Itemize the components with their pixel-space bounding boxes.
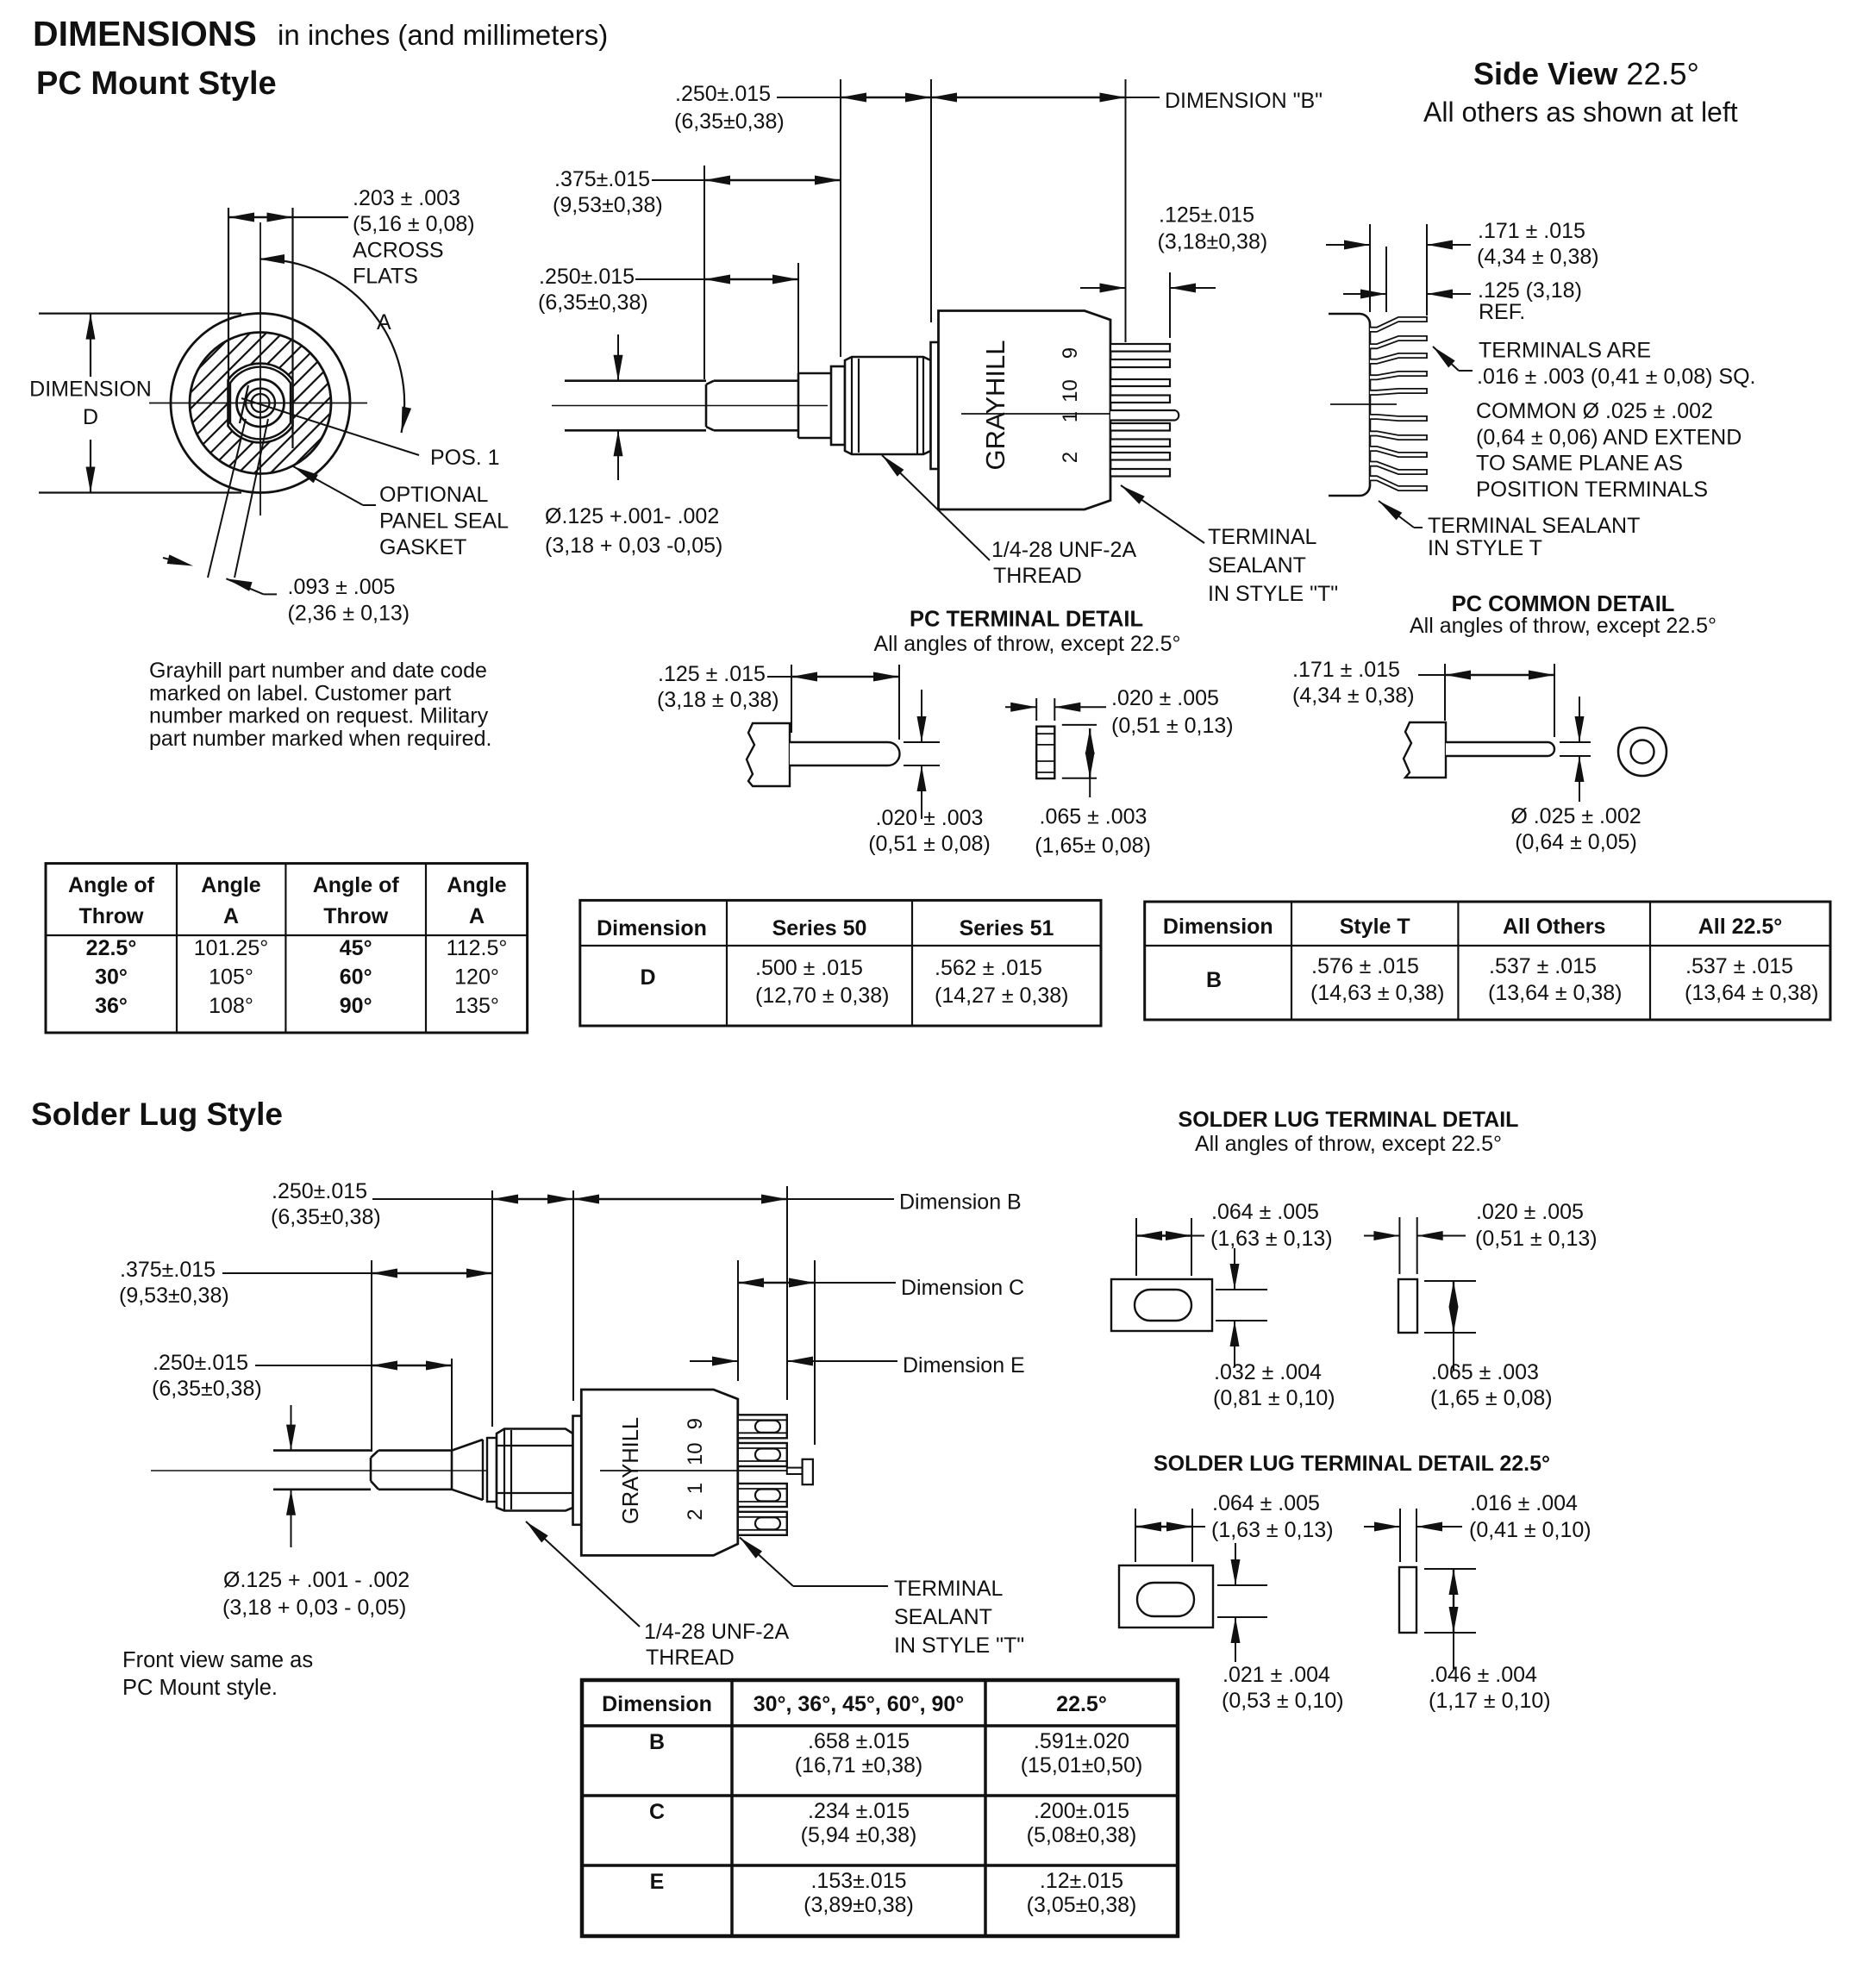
panel seal gasket leader [293,466,363,505]
front view outer gasket circle [171,314,350,493]
svg-text:.064 ± .005: .064 ± .005 [1211,1200,1319,1224]
dim .125 terminal arrows [1080,287,1126,289]
22.5 sealant leader [1379,501,1414,528]
svg-text:9: 9 [1059,347,1082,359]
svg-text:.093 ± .005: .093 ± .005 [288,575,396,599]
svg-text:.021 ± .004: .021 ± .004 [1223,1663,1330,1687]
svg-text:.125±.015: .125±.015 [1159,203,1254,228]
svg-text:1: 1 [684,1483,707,1494]
pcd pin ticks [1560,741,1591,743]
svg-text:Front view same as: Front view same as [122,1648,313,1672]
svg-text:(15,01±0,50): (15,01±0,50) [1021,1753,1143,1777]
svg-text:Dimension E: Dimension E [903,1353,1025,1378]
sl dimension C dim line [738,1282,815,1284]
side view thread relief [798,372,831,375]
ptd end view rect [1036,727,1054,778]
slt lug oval [1135,1290,1191,1321]
sl main body [581,1390,738,1555]
dimension D dim line lower [90,440,91,493]
pcd pin arrows [1579,697,1580,742]
22.5 dim .171 arrows [1326,244,1370,246]
svg-text:B: B [1206,968,1222,992]
sl shaft lines [273,1449,371,1452]
dim .375 extension left [703,166,705,379]
ptd ext right [898,665,900,740]
svg-text:TERMINAL: TERMINAL [1208,525,1317,549]
side view shaft flat section [714,379,798,382]
sl thread section [378,1449,452,1452]
svg-text:.250±.015: .250±.015 [272,1179,367,1203]
svg-text:.375±.015: .375±.015 [554,167,650,191]
svg-text:(9,53±0,38): (9,53±0,38) [119,1284,229,1308]
sl common pin [787,1468,803,1474]
svg-text:.12±.015: .12±.015 [1040,1869,1123,1893]
sl taper [452,1440,483,1451]
slt oval height arrows [1234,1248,1235,1290]
svg-text:GRAYHILL: GRAYHILL [980,340,1010,470]
svg-text:ACROSS: ACROSS [353,238,444,262]
side view position terminals [1110,344,1170,352]
svg-text:45°: 45° [340,936,372,960]
svg-text:IN STYLE "T": IN STYLE "T" [1208,582,1338,606]
svg-text:Dimension: Dimension [1163,915,1273,939]
thread leader [882,455,990,560]
style table grid [1145,902,1830,1020]
svg-text:(6,35±0,38): (6,35±0,38) [674,109,785,134]
svg-text:Throw: Throw [323,904,389,928]
svg-text:Throw: Throw [79,904,145,928]
svg-text:.153±.015: .153±.015 [810,1869,906,1893]
svg-text:(0,41 ± 0,10): (0,41 ± 0,10) [1469,1518,1591,1542]
svg-text:108°: 108° [209,994,253,1018]
svg-text:.020 ± .005: .020 ± .005 [1111,686,1219,710]
svg-text:(3,18 ± 0,38): (3,18 ± 0,38) [657,688,779,712]
svg-text:.500 ± .015: .500 ± .015 [755,956,863,980]
sl ext lug root [737,1260,739,1381]
svg-text:(13,64 ± 0,38): (13,64 ± 0,38) [1685,981,1818,1005]
svg-text:PC Mount style.: PC Mount style. [122,1676,278,1700]
side view shaft lines [565,379,706,382]
side view common terminal [1110,410,1179,421]
svg-text:Dimension: Dimension [597,916,707,940]
slt dim .064 exts [1135,1218,1137,1276]
svg-text:marked on label. Customer part: marked on label. Customer part [149,681,451,705]
svg-text:Series 50: Series 50 [772,916,867,940]
svg-text:.537 ± .015: .537 ± .015 [1685,954,1793,978]
svg-text:.065 ± .003: .065 ± .003 [1431,1360,1539,1384]
svg-text:All angles of throw, except 22: All angles of throw, except 22.5° [1195,1132,1502,1156]
svg-text:A: A [377,310,391,334]
svg-text:(2,36 ± 0,13): (2,36 ± 0,13) [288,602,410,626]
dim .375 [652,179,704,181]
svg-text:(4,34 ± 0,38): (4,34 ± 0,38) [1477,245,1599,269]
svg-text:105°: 105° [209,965,253,990]
svg-text:(3,18±0,38): (3,18±0,38) [1158,230,1268,254]
svg-text:All others as shown at left: All others as shown at left [1423,97,1738,128]
svg-text:90°: 90° [340,994,372,1018]
svg-text:(14,63 ± 0,38): (14,63 ± 0,38) [1310,981,1444,1005]
dimension D dim line upper [90,314,91,377]
sl ext body front [572,1190,574,1401]
sl solder lug terminals [738,1415,787,1438]
svg-text:TERMINAL SEALANT: TERMINAL SEALANT [1428,514,1640,538]
svg-text:(0,53 ± 0,10): (0,53 ± 0,10) [1222,1689,1344,1713]
svg-text:C: C [649,1800,665,1824]
svg-text:135°: 135° [454,994,499,1018]
svg-text:.046 ± .004: .046 ± .004 [1429,1663,1537,1687]
22.5 ext line tip [1426,224,1428,316]
svg-text:OPTIONAL: OPTIONAL [379,483,489,507]
22.5 ext line mid [1385,247,1387,312]
svg-text:.591±.020: .591±.020 [1034,1729,1129,1753]
slt225 oval ticks [1217,1584,1267,1586]
svg-text:(1,63 ± 0,13): (1,63 ± 0,13) [1210,1227,1333,1251]
extension line terminal-bend [1125,79,1127,342]
front view inner circle 3 [252,394,270,412]
svg-text:Solder Lug Style: Solder Lug Style [31,1096,283,1132]
svg-text:TO SAME PLANE AS: TO SAME PLANE AS [1476,452,1683,476]
22.5 ext line body edge [1369,224,1371,312]
slt225 lug [1119,1565,1213,1628]
svg-text:(3,05±0,38): (3,05±0,38) [1027,1893,1137,1917]
svg-text:TERMINAL: TERMINAL [894,1577,1004,1601]
front view bushing flat profile inner [230,367,291,440]
svg-text:(0,81 ± 0,10): (0,81 ± 0,10) [1213,1386,1335,1410]
sl body centerline [600,1470,802,1471]
sl dim .250 thread [255,1365,372,1366]
dimension B dim line [931,97,1126,98]
svg-text:All angles of throw, except 22: All angles of throw, except 22.5° [1410,614,1717,638]
svg-text:(5,08±0,38): (5,08±0,38) [1027,1823,1137,1847]
sl shaft axis [151,1470,603,1471]
dim .250 top [841,97,931,98]
terminal sealant T leader [1121,485,1204,543]
svg-text:Grayhill part number and date: Grayhill part number and date code [149,659,487,683]
pos 1 leader line [241,398,419,455]
svg-text:Dimension B: Dimension B [899,1190,1022,1215]
22.5 bent terminals [1370,317,1427,332]
svg-text:.020 ± .003: .020 ± .003 [876,806,984,830]
ptd ext left [791,665,792,733]
slt225 edge height arrows [1453,1569,1454,1633]
svg-text:(5,16 ± 0,08): (5,16 ± 0,08) [353,212,475,236]
slt225 lug oval [1137,1583,1194,1616]
svg-text:POSITION TERMINALS: POSITION TERMINALS [1476,478,1708,502]
svg-text:(6,35±0,38): (6,35±0,38) [538,291,648,315]
svg-text:in inches (and millimeters): in inches (and millimeters) [278,19,608,51]
pcd ext right [1554,664,1555,737]
sl shaft dia arrows [291,1405,292,1451]
svg-text:.200±.015: .200±.015 [1034,1799,1129,1823]
svg-text:(9,53±0,38): (9,53±0,38) [553,193,663,217]
22.5 terminals-are leader [1433,347,1459,371]
svg-text:.064 ± .005: .064 ± .005 [1212,1491,1320,1515]
svg-text:Style T: Style T [1340,915,1410,939]
shaft dia arrows [617,334,619,381]
22.5 body centerline [1330,403,1397,405]
pcd pin [1446,742,1554,756]
across flats dimension line [228,216,293,218]
svg-text:.016 ± .003 (0,41 ± 0,08) SQ.: .016 ± .003 (0,41 ± 0,08) SQ. [1477,365,1755,389]
sl ext lug tip [786,1186,788,1400]
svg-text:.537 ± .015: .537 ± .015 [1489,954,1597,978]
svg-text:(1,17 ± 0,10): (1,17 ± 0,10) [1429,1689,1551,1713]
svg-text:.065 ± .003: .065 ± .003 [1040,805,1147,829]
svg-text:(13,64 ± 0,38): (13,64 ± 0,38) [1488,981,1622,1005]
svg-text:PC Mount Style: PC Mount Style [36,66,277,102]
slt lug [1111,1279,1212,1331]
ptd end width arrows [1005,706,1036,708]
svg-text:1/4-28 UNF-2A: 1/4-28 UNF-2A [991,538,1136,562]
across flats right extension line [291,208,293,448]
svg-text:B: B [649,1730,665,1754]
sl ext bushing front [491,1190,493,1427]
sl shaft tip face [370,1458,372,1481]
svg-text:112.5°: 112.5° [447,936,508,960]
svg-text:All Others: All Others [1503,915,1605,939]
angle table grid [46,864,528,1033]
svg-text:.171 ± .015: .171 ± .015 [1478,219,1585,243]
svg-text:SOLDER LUG TERMINAL DETAIL 22.: SOLDER LUG TERMINAL DETAIL 22.5° [1154,1452,1550,1476]
angle A arc [260,259,404,433]
ptd dim line [767,676,791,678]
svg-text:.171 ± .015: .171 ± .015 [1292,658,1400,682]
pcd ext left [1444,664,1446,721]
svg-text:(0,51 ± 0,13): (0,51 ± 0,13) [1111,714,1234,738]
slt edge rect [1398,1279,1417,1333]
series table grid [580,900,1101,1026]
sl washers [482,1440,484,1500]
side view shaft tip face [705,384,708,427]
front view horizontal centerline [149,403,367,404]
svg-text:SOLDER LUG TERMINAL DETAIL: SOLDER LUG TERMINAL DETAIL [1179,1108,1519,1132]
svg-text:DIMENSION: DIMENSION [29,378,152,402]
svg-text:(1,63 ± 0,13): (1,63 ± 0,13) [1211,1518,1334,1542]
sl dimension E dim line [690,1360,738,1362]
slot dim arrow right [226,578,252,591]
svg-text:THREAD: THREAD [993,564,1082,588]
ptd pin thickness arrows [921,690,922,742]
slt edge width arrows [1364,1235,1399,1237]
ptd pin thickness ticks [904,741,940,743]
svg-text:All 22.5°: All 22.5° [1698,915,1783,939]
svg-text:60°: 60° [340,965,372,990]
svg-text:(3,89±0,38): (3,89±0,38) [804,1893,914,1917]
front view inner circle 2 [246,389,275,418]
svg-text:Angle: Angle [201,873,261,897]
dimension D bottom extension line [39,491,241,493]
svg-text:(1,65 ± 0,08): (1,65 ± 0,08) [1430,1386,1553,1410]
slt225 edge height ticks [1424,1568,1476,1570]
svg-text:GASKET: GASKET [379,535,466,559]
dim .250 thread [635,278,704,280]
svg-text:.576 ± .015: .576 ± .015 [1311,954,1419,978]
svg-text:.658 ±.015: .658 ±.015 [808,1729,910,1753]
extension line terminal-tip [1169,272,1171,338]
svg-text:(6,35±0,38): (6,35±0,38) [152,1377,262,1401]
svg-text:.250±.015: .250±.015 [539,265,635,289]
front view vertical centerline [260,222,261,515]
bottom table grid [582,1680,1178,1936]
svg-text:2: 2 [684,1509,707,1520]
slot line 1 [208,419,246,578]
svg-text:Side View 22.5°: Side View 22.5° [1473,56,1699,91]
svg-text:(4,34 ± 0,38): (4,34 ± 0,38) [1292,684,1415,708]
svg-text:IN STYLE "T": IN STYLE "T" [894,1634,1024,1658]
slt oval height ticks [1216,1289,1267,1290]
svg-text:10: 10 [1059,379,1082,403]
svg-text:.032 ± .004: .032 ± .004 [1214,1360,1322,1384]
front view bushing flat profile outer [228,364,293,443]
svg-text:Dimension: Dimension [602,1692,712,1716]
svg-text:36°: 36° [95,994,128,1018]
ptd pin [790,742,900,765]
svg-text:SEALANT: SEALANT [1208,553,1306,578]
svg-text:TERMINALS ARE: TERMINALS ARE [1479,339,1651,363]
svg-text:DIMENSIONS: DIMENSIONS [33,14,257,53]
svg-text:DIMENSION "B": DIMENSION "B" [1165,89,1323,113]
side view body centerline [961,413,1172,415]
svg-text:.250±.015: .250±.015 [153,1351,248,1375]
side view main body [939,311,1111,510]
pcd end view donut [1618,728,1667,776]
ptd height ticks [1062,724,1097,726]
svg-text:(5,94 ±0,38): (5,94 ±0,38) [801,1823,917,1847]
22.5 dim .125 arrows [1343,293,1386,295]
svg-text:D: D [83,405,98,429]
slt edge exts [1398,1217,1400,1274]
svg-text:(16,71 ±0,38): (16,71 ±0,38) [795,1753,923,1777]
svg-text:Series 51: Series 51 [960,916,1054,940]
sl ext shaft tip [371,1260,372,1452]
front view shaft circle [237,379,285,427]
svg-text:(0,51 ± 0,13): (0,51 ± 0,13) [1475,1227,1598,1251]
sl dimension B dim line [573,1198,787,1200]
svg-text:(3,18 + 0,03 - 0,05): (3,18 + 0,03 - 0,05) [222,1596,406,1620]
svg-text:(6,35±0,38): (6,35±0,38) [271,1205,381,1229]
svg-text:(1,65± 0,08): (1,65± 0,08) [1035,834,1151,858]
22.5 body outline [1329,314,1370,496]
pcd dim line [1418,674,1445,676]
svg-text:(0,64 ± 0,06) AND EXTEND: (0,64 ± 0,06) AND EXTEND [1476,425,1742,449]
svg-text:IN STYLE T: IN STYLE T [1428,536,1542,560]
sl dim .250 top [372,1198,492,1200]
extension line body-face [930,79,932,322]
svg-text:Angle of: Angle of [68,873,155,897]
svg-text:(14,27 ± 0,38): (14,27 ± 0,38) [935,984,1068,1008]
slt225 dim .064 line [1135,1526,1192,1528]
ptd end ext lines [1035,698,1037,721]
svg-text:.562 ± .015: .562 ± .015 [935,956,1042,980]
svg-text:A: A [469,904,485,928]
svg-text:Angle of: Angle of [313,873,400,897]
svg-text:.234 ±.015: .234 ±.015 [808,1799,910,1823]
svg-text:101.25°: 101.25° [194,936,268,960]
ptd height arrows [1089,728,1091,778]
pcd molded block [1404,722,1446,778]
svg-text:1/4-28 UNF-2A: 1/4-28 UNF-2A [644,1620,789,1644]
slot line 2 [234,419,268,578]
slt dim .064 line [1136,1234,1191,1236]
sl body plate [573,1416,582,1525]
side view body front plate [931,342,939,469]
svg-text:Ø.125 + .001 - .002: Ø.125 + .001 - .002 [223,1568,410,1592]
svg-text:22.5°: 22.5° [1056,1692,1107,1716]
side view washer [831,366,845,445]
svg-text:FLATS: FLATS [353,265,418,289]
svg-text:30°: 30° [95,965,128,990]
slt225 edge width arrows [1364,1526,1400,1528]
svg-text:PANEL SEAL: PANEL SEAL [379,509,509,534]
svg-text:Ø.125 +.001- .002: Ø.125 +.001- .002 [545,504,719,528]
svg-text:A: A [223,904,239,928]
svg-text:REF.: REF. [1479,300,1525,324]
slt edge height arrows [1453,1281,1454,1333]
sl ext common cap [814,1260,816,1445]
dim .250 top leader [777,97,841,98]
sl sealant leader [740,1538,793,1587]
svg-text:120°: 120° [454,965,499,990]
front view hatched ring outer circle [190,333,331,474]
svg-text:Dimension C: Dimension C [901,1276,1024,1300]
svg-text:THREAD: THREAD [646,1646,735,1670]
svg-text:All angles of throw, except 22: All angles of throw, except 22.5° [873,632,1180,656]
side view bushing [845,357,931,454]
svg-text:.375±.015: .375±.015 [120,1258,216,1282]
svg-text:part number marked when requir: part number marked when required. [149,727,491,751]
sl thread leader [526,1521,640,1627]
slt225 edge rect [1399,1567,1416,1633]
dimension D top extension line [39,313,241,315]
sl bushing [497,1429,573,1511]
svg-text:22.5°: 22.5° [86,936,137,960]
front view shaft flat chord [240,385,248,423]
svg-text:.016 ± .004: .016 ± .004 [1470,1491,1578,1515]
sl dim .375 [222,1272,372,1274]
svg-text:PC COMMON DETAIL: PC COMMON DETAIL [1452,592,1675,616]
extension line body-front [840,79,841,357]
svg-text:POS. 1: POS. 1 [430,446,500,470]
svg-text:SEALANT: SEALANT [894,1605,992,1629]
slt225 edge exts [1399,1509,1401,1562]
svg-text:(0,51 ± 0,08): (0,51 ± 0,08) [868,832,991,856]
svg-text:10: 10 [684,1442,707,1465]
svg-text:(12,70 ± 0,38): (12,70 ± 0,38) [755,984,889,1008]
slt225 dim .064 exts [1135,1509,1136,1562]
svg-text:.125 ± .015: .125 ± .015 [658,662,766,686]
svg-text:1: 1 [1059,411,1082,422]
svg-text:.250±.015: .250±.015 [675,82,771,106]
svg-text:COMMON Ø .025 ± .002: COMMON Ø .025 ± .002 [1476,399,1713,423]
svg-text:.203 ± .003: .203 ± .003 [353,186,460,210]
side view shaft axis line [552,405,828,407]
slt225 oval arrows [1235,1543,1236,1585]
ptd molded block [747,723,790,786]
svg-text:Ø .025 ± .002: Ø .025 ± .002 [1510,804,1641,828]
across flats left extension line [228,208,229,424]
svg-text:9: 9 [684,1418,707,1429]
svg-text:2: 2 [1059,452,1082,463]
svg-text:E: E [650,1870,665,1894]
svg-text:PC TERMINAL DETAIL: PC TERMINAL DETAIL [910,608,1143,632]
svg-text:(3,18 + 0,03 -0,05): (3,18 + 0,03 -0,05) [545,534,722,558]
svg-text:GRAYHILL: GRAYHILL [619,1417,643,1524]
svg-text:(0,64 ± 0,05): (0,64 ± 0,05) [1515,830,1637,854]
slot dim arrow left [163,558,183,563]
svg-text:Angle: Angle [447,873,507,897]
svg-text:.125 (3,18): .125 (3,18) [1478,278,1582,303]
sl ext thread end [451,1359,453,1450]
